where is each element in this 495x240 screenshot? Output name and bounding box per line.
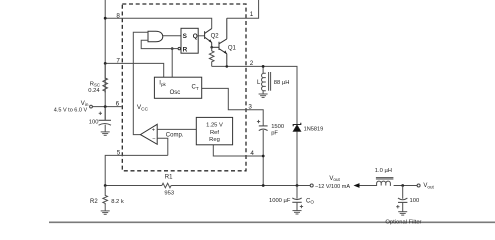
reference regulator box [196,117,232,144]
node filter cap [401,184,404,187]
diode D1 1N5819 schottky [293,123,301,132]
comparator U2 [140,124,157,144]
wire CT cap bottom to output rail [262,130,264,186]
text labels [116,11,255,157]
wire pin4 ground leg [213,145,263,156]
latch U1 box [181,28,198,53]
wire pin2 emitter line [212,66,297,124]
svg-text:1500: 1500 [271,124,284,130]
svg-text:Q1: Q1 [228,45,237,51]
svg-text:1: 1 [250,11,254,18]
ground filter cap [398,212,407,215]
resistor R1 [162,183,171,188]
ground inductor [259,94,268,97]
node pin6/Vin [104,105,107,108]
wire pin6 Vin input [92,106,121,108]
arrow to optional filter [354,183,360,188]
wire pin5 feedback [105,155,168,185]
svg-text:R: R [183,46,188,53]
svg-text:CT: CT [192,85,199,91]
svg-text:100: 100 [410,198,420,204]
capacitor Co 1000uF [292,186,303,211]
node CT line / output rail [262,184,265,187]
svg-text:Reg: Reg [209,137,220,143]
wire comparator output to AND top input [133,32,148,134]
terminal Vin circle [90,105,93,108]
svg-text:3: 3 [248,103,252,110]
node diode / output rail [296,184,299,187]
wire pin1 [227,0,259,18]
IC dashed boundary [122,4,246,171]
svg-text:1.25 V: 1.25 V [206,123,223,129]
AND gate [148,31,163,42]
wire arrow to filter inductor [360,185,377,187]
inductor filter 1.0uH [376,178,394,186]
svg-text:Osc: Osc [170,90,181,96]
wire AND output to latch S [163,35,181,37]
resistor Rsc [103,63,108,92]
resistor Q2 emitter [209,47,214,66]
capacitor 100uF input [99,107,111,132]
capacitor filter 100uF [396,186,407,212]
oscillator box [154,77,201,98]
svg-text:Comp.: Comp. [166,133,184,139]
svg-text:8.2 k: 8.2 k [111,199,124,205]
svg-text:1000 µF: 1000 µF [269,198,291,204]
svg-text:1.0 µH: 1.0 µH [375,168,392,174]
svg-text:Optional Filter: Optional Filter [385,220,421,225]
wire comparator - input to pin5 [157,138,168,155]
svg-text:+: + [152,127,155,133]
ground Co [293,211,302,214]
svg-text:−: − [152,137,155,143]
svg-text:8: 8 [116,12,120,19]
capacitor CT 1500pF [257,120,268,131]
bottom rule [49,221,495,223]
svg-text:5: 5 [117,150,121,157]
transistor Q2 [205,29,212,48]
svg-text:Vout: Vout [423,183,434,189]
node pin4 / CT cap line [262,155,265,158]
transistor Q1 [212,18,227,66]
svg-text:Ref: Ref [210,130,219,136]
svg-text:pF: pF [271,130,278,136]
node Q1 emitter on pin2 line [226,65,229,68]
svg-text:R1: R1 [165,174,173,180]
svg-text:7: 7 [116,58,120,65]
svg-text:4.5 V to 6.0 V: 4.5 V to 6.0 V [54,108,88,114]
svg-text:−12 V/100 mA: −12 V/100 mA [315,184,350,190]
svg-text:6: 6 [116,101,120,108]
wire Vin rail vertical [104,0,106,120]
svg-text:CO: CO [306,198,314,204]
latch R input bubble [178,47,180,49]
wire R node to Osc [171,49,173,78]
svg-text:Q: Q [193,33,198,40]
svg-text:Vin: Vin [81,101,89,107]
svg-text:S: S [183,33,188,40]
svg-text:Q2: Q2 [211,33,220,39]
wire pin3 CT path [202,88,264,126]
svg-text:Ipk: Ipk [159,81,166,87]
svg-text:1N5819: 1N5819 [304,126,324,132]
svg-text:L: L [257,80,261,86]
terminal Vout2 circle [417,184,420,187]
node pin8/Vin [104,17,107,20]
svg-text:VCC: VCC [137,104,149,112]
wire latch Q to Q2 base [198,35,204,37]
node R1/R2/pin5 [104,184,107,187]
wire filter inductor to terminal [394,185,418,187]
ground R2 [101,206,110,215]
inductor L 88uH [262,72,271,94]
svg-text:0.24: 0.24 [88,88,100,94]
svg-text:88 µH: 88 µH [274,80,290,86]
wire pin8 [105,18,212,28]
resistor R2 [103,186,108,206]
node latch R input [171,47,174,50]
wire diode anode to output rail [296,131,298,185]
svg-text:R2: R2 [90,199,98,205]
wire output rail [105,185,162,187]
svg-text:Vout: Vout [329,176,340,182]
svg-text:100: 100 [89,119,99,125]
svg-text:2: 2 [250,60,254,67]
wire comparator + input to ref [157,128,196,130]
wire R node to R bubble [172,48,178,50]
svg-text:953: 953 [164,191,174,197]
ground input cap [101,132,110,135]
node pin7/Vin [104,62,107,65]
terminal Vout circle [310,184,313,187]
svg-text:4: 4 [250,150,254,157]
wire pin7 to Ipk [105,63,164,77]
node Q2 emitter / Q1 base [210,46,213,49]
wire AND bottom input loop [141,40,172,48]
wire inductor top [262,66,264,73]
node pin2 / inductor [262,65,265,68]
svg-text:RSC: RSC [90,81,100,87]
